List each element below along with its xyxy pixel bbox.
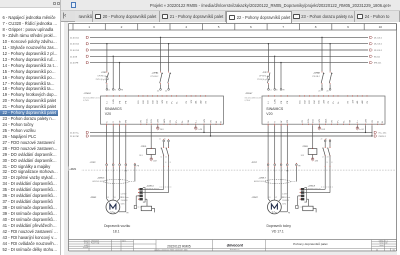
svg-text:20: 20 bbox=[327, 91, 329, 93]
svg-text:drivecont s.r.o.: drivecont s.r.o. bbox=[230, 248, 240, 251]
svg-text:22M: 22M bbox=[315, 161, 319, 163]
wire PE drop -22SS7 bbox=[280, 62, 284, 91]
wire -22SS7 to 0V rail bbox=[371, 125, 372, 137]
svg-text:0,37kW: 0,37kW bbox=[121, 194, 127, 196]
brake magnet -22M7 bbox=[296, 205, 316, 212]
column ruler numbers bbox=[88, 24, 396, 31]
svg-text:22M: 22M bbox=[153, 161, 157, 163]
wire rail /7M bbox=[70, 135, 386, 138]
wire folio stub 24L+ -22SS2 bbox=[195, 125, 202, 131]
svg-text:H05VV-F 4G1,5: H05VV-F 4G1,5 bbox=[92, 181, 104, 183]
caption Dopravník vozíku bbox=[104, 224, 130, 233]
svg-text:PE: PE bbox=[121, 89, 123, 91]
svg-text:PV10 (6 gG): PV10 (6 gG) bbox=[257, 79, 268, 81]
wire PE drop -22SS2 bbox=[119, 62, 123, 91]
svg-text:schválil: schválil bbox=[83, 247, 89, 249]
svg-text:N-: N- bbox=[176, 101, 178, 103]
svg-text:21.10 /N: 21.10 /N bbox=[70, 56, 78, 58]
svg-text:L1: L1 bbox=[108, 89, 110, 91]
svg-text:/ 52: / 52 bbox=[392, 249, 395, 251]
sidebar panel bbox=[0, 0, 61, 255]
diagram tab bar bbox=[61, 11, 400, 22]
svg-text:V20: V20 bbox=[266, 112, 272, 116]
svg-text:0,75kW: 0,75kW bbox=[245, 100, 251, 102]
svg-text:24: 24 bbox=[170, 162, 172, 164]
svg-text:6SL3210-5BB17-5UV1: 6SL3210-5BB17-5UV1 bbox=[245, 98, 262, 100]
svg-text:21.10 /2L1: 21.10 /2L1 bbox=[70, 37, 79, 39]
svg-text:24: 24 bbox=[327, 156, 329, 158]
relay coil -22K5 bbox=[139, 125, 157, 162]
svg-text:20: 20 bbox=[165, 91, 167, 93]
svg-text:21.10 /PE: 21.10 /PE bbox=[70, 63, 79, 65]
wire bus /2L2 bbox=[70, 43, 382, 46]
terminal PE aux -22X7 bbox=[296, 163, 302, 182]
svg-text:8: 8 bbox=[315, 25, 317, 29]
svg-text:L1: L1 bbox=[270, 89, 272, 91]
svg-text:-22K8: -22K8 bbox=[302, 146, 309, 148]
svg-text:+RM1: +RM1 bbox=[69, 167, 77, 171]
svg-text:N: N bbox=[276, 89, 278, 91]
svg-text:L2/N: L2/N bbox=[113, 99, 115, 104]
svg-text:N-: N- bbox=[182, 120, 184, 122]
svg-text:1330 1/min: 1330 1/min bbox=[282, 197, 290, 199]
svg-text:zakázka: 20220122_RM05_2023122: zakázka: 20220122_RM05_20231229_1806 bbox=[154, 249, 187, 251]
svg-text:DIC: DIC bbox=[157, 100, 159, 104]
svg-text:20: 20 bbox=[321, 139, 323, 141]
caption Dopravník točny bbox=[266, 224, 291, 233]
svg-text:L+24: L+24 bbox=[198, 129, 202, 131]
title block texts bbox=[83, 239, 395, 251]
fuse -22F7 bbox=[257, 43, 271, 91]
svg-text:U1: U1 bbox=[269, 197, 271, 199]
svg-text:/PE 24.1: /PE 24.1 bbox=[374, 63, 381, 65]
svg-text:30: 30 bbox=[325, 139, 327, 141]
svg-text:-22SS7: -22SS7 bbox=[245, 93, 253, 95]
canvas gutters bbox=[64, 22, 68, 255]
svg-text:21.10 /7M: 21.10 /7M bbox=[70, 136, 79, 138]
relay contacts -22K5 bbox=[159, 139, 171, 167]
svg-text:DPVM 0-1: DPVM 0-1 bbox=[98, 76, 107, 78]
wire N drop -22SS2 bbox=[112, 56, 116, 92]
wire folio stub 24.3 -22SS2 bbox=[157, 125, 164, 131]
cable -22WL7 bbox=[254, 178, 297, 184]
circuit breaker -22FA4 bbox=[150, 37, 171, 93]
svg-text:U1: U1 bbox=[107, 197, 109, 199]
svg-text:/7L+ 24.1: /7L+ 24.1 bbox=[379, 132, 387, 134]
terminal PE aux -22X2 bbox=[134, 163, 140, 182]
svg-text:24: 24 bbox=[331, 162, 333, 164]
svg-text:L2/N: L2/N bbox=[275, 99, 277, 104]
svg-text:6SL3210-5BB17-5UV1: 6SL3210-5BB17-5UV1 bbox=[83, 98, 100, 100]
motor -22M2 bbox=[90, 167, 129, 215]
svg-text:5: 5 bbox=[218, 25, 220, 29]
svg-text:50Hz: 50Hz bbox=[282, 203, 286, 205]
svg-text:DIC: DIC bbox=[319, 100, 321, 104]
svg-text:0,75kW: 0,75kW bbox=[83, 100, 89, 102]
wire bus /PE bbox=[70, 62, 381, 65]
svg-text:PE: PE bbox=[125, 170, 128, 172]
svg-text:20220122 RM05: 20220122 RM05 bbox=[167, 244, 191, 248]
svg-text:-22SS2: -22SS2 bbox=[84, 93, 92, 95]
svg-text:LTN 6B-2: LTN 6B-2 bbox=[150, 76, 158, 78]
svg-text:měř. 1: měř. 1 bbox=[122, 241, 126, 243]
svg-text:4: 4 bbox=[185, 25, 187, 29]
svg-text:6: 6 bbox=[250, 25, 252, 29]
svg-text:21.10 /2L2: 21.10 /2L2 bbox=[70, 44, 79, 46]
svg-text:-22M2: -22M2 bbox=[90, 197, 97, 199]
svg-text:SINAMICS: SINAMICS bbox=[266, 107, 284, 111]
svg-text:DO-: DO- bbox=[313, 119, 315, 123]
svg-text:22: 22 bbox=[376, 249, 378, 251]
svg-text:1: 1 bbox=[88, 25, 90, 29]
svg-text:-22X2: -22X2 bbox=[90, 162, 97, 164]
svg-text:-22WL7: -22WL7 bbox=[259, 178, 267, 180]
svg-text:drivecont: drivecont bbox=[227, 243, 244, 247]
svg-text:PE: PE bbox=[126, 213, 128, 215]
svg-text:PE: PE bbox=[288, 213, 290, 215]
wire -22SS2 to 0V rail bbox=[210, 125, 211, 137]
cable -22WL9 bbox=[308, 185, 334, 190]
brake plug -22WL9 bbox=[298, 167, 330, 207]
location boundary +RM1 bbox=[69, 166, 397, 170]
cable -22WL4 bbox=[146, 185, 172, 190]
svg-text:-22WL9: -22WL9 bbox=[308, 185, 316, 187]
svg-text:DO-: DO- bbox=[151, 119, 153, 123]
svg-text:PE: PE bbox=[137, 165, 140, 167]
brake plug -22WL4 bbox=[136, 167, 168, 207]
svg-text:20: 20 bbox=[159, 139, 161, 141]
svg-text:LTN 6B-2: LTN 6B-2 bbox=[312, 76, 320, 78]
svg-text:2: 2 bbox=[121, 25, 123, 29]
svg-text:-22WL4: -22WL4 bbox=[146, 185, 154, 187]
svg-text:24.3: 24.3 bbox=[321, 129, 325, 131]
svg-text:V20: V20 bbox=[105, 112, 111, 116]
svg-text:L+24: L+24 bbox=[359, 129, 363, 131]
fuse -22F2 bbox=[96, 43, 110, 91]
window title bar bbox=[61, 0, 400, 11]
svg-text:20: 20 bbox=[318, 91, 320, 93]
wire N drop -22SS7 bbox=[274, 56, 278, 92]
relay coil -22K8 bbox=[301, 125, 319, 162]
svg-text:-22F2: -22F2 bbox=[101, 72, 107, 74]
svg-text:Dopravník točny: Dopravník točny bbox=[266, 224, 291, 228]
svg-text:-22M7: -22M7 bbox=[251, 197, 258, 199]
svg-text:0,37kW: 0,37kW bbox=[282, 194, 288, 196]
svg-text:VD 17.1: VD 17.1 bbox=[272, 230, 284, 234]
svg-text:1330 1/min: 1330 1/min bbox=[121, 197, 129, 199]
title block bbox=[69, 240, 397, 251]
svg-text:20: 20 bbox=[157, 91, 159, 93]
relay contacts -22K8 bbox=[321, 139, 333, 167]
drive unit -22SS2 SINAMICS V20 bbox=[83, 93, 223, 125]
svg-text:V1: V1 bbox=[114, 197, 116, 199]
svg-text:3: 3 bbox=[153, 25, 155, 29]
svg-text:-22FA4: -22FA4 bbox=[152, 72, 160, 75]
svg-text:24: 24 bbox=[165, 156, 167, 158]
svg-text:230/400V: 230/400V bbox=[282, 200, 290, 202]
svg-text:14: 14 bbox=[165, 162, 167, 164]
svg-text:PE: PE bbox=[298, 165, 301, 167]
wire bus /N bbox=[70, 55, 380, 58]
page frame bbox=[69, 24, 397, 252]
svg-text:-22F7: -22F7 bbox=[262, 72, 268, 74]
svg-text:/2L1 24.1: /2L1 24.1 bbox=[374, 37, 382, 39]
svg-text:14: 14 bbox=[326, 162, 328, 164]
svg-text:-22FA8: -22FA8 bbox=[313, 72, 321, 75]
svg-text:Dopravník vozíku: Dopravník vozíku bbox=[104, 224, 130, 228]
wire folio stub 24.3 -22SS7 bbox=[318, 125, 325, 131]
svg-text:18.1: 18.1 bbox=[113, 230, 120, 234]
svg-text:24.3: 24.3 bbox=[160, 129, 164, 131]
svg-text:V1: V1 bbox=[275, 197, 277, 199]
svg-text:/7M 24.1: /7M 24.1 bbox=[379, 136, 386, 138]
svg-text:-22X7: -22X7 bbox=[251, 162, 258, 164]
wire -22SS7 to +24 rail bbox=[365, 125, 366, 133]
terminal strip -22X2 bbox=[90, 125, 128, 172]
svg-text:/N 24.1: /N 24.1 bbox=[374, 56, 380, 58]
svg-text:N-: N- bbox=[343, 120, 345, 122]
svg-text:PE: PE bbox=[286, 170, 289, 172]
wire -22SS2 to +24 rail bbox=[203, 125, 204, 133]
motor -22M7 bbox=[251, 167, 290, 215]
svg-text:1:1: 1:1 bbox=[386, 240, 388, 242]
svg-text:10: 10 bbox=[379, 25, 383, 29]
terminal strip -22X7 bbox=[251, 125, 289, 172]
svg-text:14: 14 bbox=[322, 156, 324, 158]
svg-text:14: 14 bbox=[161, 156, 163, 158]
wire bus /2L1 bbox=[70, 36, 382, 39]
svg-text:W: W bbox=[281, 121, 283, 123]
wire folio stub 24L+ -22SS7 bbox=[356, 125, 363, 131]
svg-text:PE: PE bbox=[282, 89, 284, 91]
cable -22WL3 bbox=[92, 178, 135, 184]
wire bus /2L3 bbox=[70, 49, 382, 52]
circuit breaker -22FA8 bbox=[312, 37, 333, 93]
svg-text:7: 7 bbox=[282, 25, 284, 29]
wire rail /7L+ bbox=[70, 131, 386, 134]
svg-text:SINAMICS: SINAMICS bbox=[105, 107, 123, 111]
svg-text:50Hz: 50Hz bbox=[121, 203, 125, 205]
svg-text:24.3: 24.3 bbox=[301, 155, 304, 157]
svg-text:21.10 /2L3: 21.10 /2L3 bbox=[70, 50, 79, 52]
brake magnet -22M2 bbox=[134, 205, 154, 212]
svg-text:/2L2 24.1: /2L2 24.1 bbox=[374, 44, 382, 46]
svg-text:/2L3 24.1: /2L3 24.1 bbox=[374, 50, 382, 52]
svg-text:9: 9 bbox=[347, 25, 349, 29]
svg-text:H05VV-F 4G1,5: H05VV-F 4G1,5 bbox=[254, 181, 266, 183]
svg-text:24.3: 24.3 bbox=[139, 155, 142, 157]
svg-text:-22K5: -22K5 bbox=[140, 146, 147, 148]
drive unit -22SS7 SINAMICS V20 bbox=[245, 93, 385, 125]
svg-text:ověřil: ověřil bbox=[84, 245, 88, 247]
svg-text:W: W bbox=[119, 121, 121, 123]
svg-text:PV10 (6 gG): PV10 (6 gG) bbox=[96, 79, 107, 81]
svg-text:N: N bbox=[115, 89, 117, 91]
svg-text:-22WL3: -22WL3 bbox=[97, 178, 105, 180]
svg-text:Pohony dopravníků palet: Pohony dopravníků palet bbox=[293, 242, 327, 246]
svg-text:19.05.2023: 19.05.2023 bbox=[91, 240, 99, 242]
svg-text:DPVM 0-1: DPVM 0-1 bbox=[259, 76, 268, 78]
svg-text:30: 30 bbox=[164, 139, 166, 141]
svg-text:N-: N- bbox=[338, 101, 340, 103]
svg-text:21.10 /7L+: 21.10 /7L+ bbox=[70, 132, 80, 134]
svg-text:230/400V: 230/400V bbox=[121, 200, 129, 202]
